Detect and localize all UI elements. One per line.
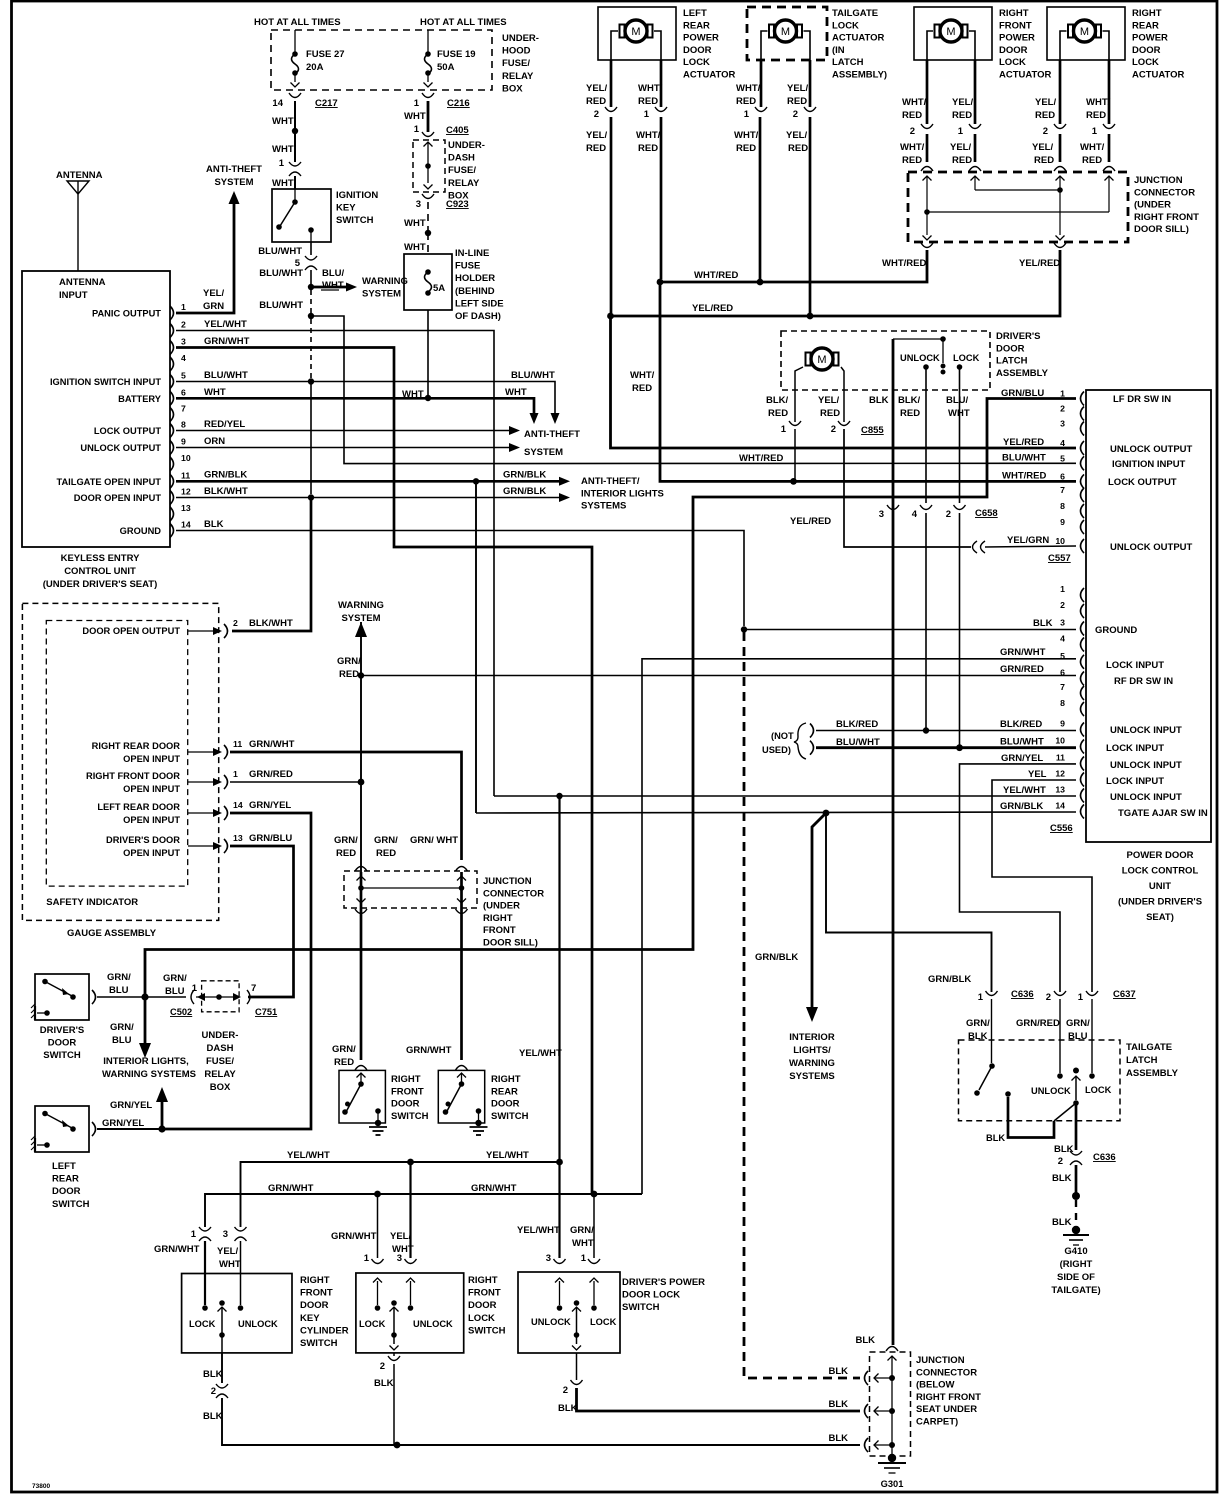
svg-text:13: 13 — [233, 833, 243, 843]
svg-text:6: 6 — [1060, 471, 1065, 481]
junction connector middle arcs — [355, 867, 367, 872]
svg-text:YEL/WHT: YEL/WHT — [1003, 785, 1046, 796]
gauge assembly outer box — [22, 603, 218, 920]
wires right rear power door lock actuator — [1059, 60, 1062, 124]
svg-text:1: 1 — [192, 983, 198, 994]
svg-text:SYSTEM: SYSTEM — [362, 289, 401, 300]
svg-text:YEL/RED: YEL/RED — [1003, 437, 1044, 448]
wire GRN/WHT C556 pin5 lock input — [642, 659, 1076, 1194]
wire WHT C217 to ignition key switch — [294, 101, 296, 128]
svg-text:8: 8 — [181, 420, 186, 430]
wire GRN/RED C556 pin6 RF door switch input — [361, 675, 1076, 677]
tailgate unlock wire — [1059, 999, 1061, 1073]
svg-text:GRN/WHT: GRN/WHT — [406, 1045, 452, 1056]
right rear door switch — [438, 1070, 484, 1123]
svg-text:WHT/: WHT/ — [638, 83, 663, 94]
svg-text:YEL/: YEL/ — [217, 1246, 238, 1257]
svg-text:UNLOCK INPUT: UNLOCK INPUT — [1110, 725, 1182, 736]
svg-text:CONNECTOR: CONNECTOR — [1134, 187, 1195, 198]
svg-text:YEL/RED: YEL/RED — [692, 303, 733, 314]
wire GRN/BLU C751 to gauge pin13 — [250, 996, 294, 998]
connectors right front power door lock actuator — [921, 124, 933, 129]
svg-text:3: 3 — [1060, 419, 1065, 429]
svg-text:WHT/RED: WHT/RED — [694, 270, 738, 281]
svg-text:M: M — [946, 26, 955, 38]
svg-text:SWITCH: SWITCH — [52, 1199, 90, 1210]
svg-text:RIGHT: RIGHT — [468, 1275, 498, 1286]
arrow to warning system (BLU/WHT) — [311, 286, 346, 289]
svg-text:BLK: BLK — [828, 1366, 848, 1377]
svg-text:2: 2 — [946, 509, 951, 520]
svg-text:RED: RED — [952, 110, 972, 121]
fuse 27 20A — [294, 30, 296, 52]
svg-text:SYSTEM: SYSTEM — [214, 177, 253, 188]
motor driver's door latch — [811, 348, 833, 370]
svg-text:WHT/: WHT/ — [1086, 97, 1111, 108]
svg-text:50A: 50A — [437, 62, 455, 73]
svg-text:2: 2 — [1060, 600, 1065, 610]
svg-text:BLU/WHT: BLU/WHT — [1000, 737, 1044, 748]
svg-text:YEL/: YEL/ — [203, 288, 224, 299]
svg-text:REAR: REAR — [491, 1086, 518, 1097]
svg-text:ACTUATOR: ACTUATOR — [832, 33, 885, 44]
svg-text:UNDER-: UNDER- — [502, 33, 539, 44]
svg-text:RED: RED — [586, 143, 606, 154]
svg-text:DOOR SILL): DOOR SILL) — [483, 938, 538, 949]
svg-text:RF DR SW IN: RF DR SW IN — [1114, 676, 1173, 687]
wire GRN/RED gauge pin1 to junction connector — [230, 781, 358, 783]
svg-text:RED/YEL: RED/YEL — [204, 419, 245, 430]
svg-text:3: 3 — [879, 509, 884, 520]
junction dot BLK/WHT x311 — [308, 494, 314, 500]
svg-text:BLU/WHT: BLU/WHT — [258, 246, 302, 257]
svg-text:DRIVER'S POWER: DRIVER'S POWER — [622, 1277, 705, 1288]
svg-text:GRN/: GRN/ — [337, 656, 361, 667]
svg-text:YEL/: YEL/ — [390, 1231, 411, 1242]
svg-text:UNIT: UNIT — [1149, 881, 1171, 892]
svg-text:LOCK OUTPUT: LOCK OUTPUT — [1108, 477, 1177, 488]
svg-text:7: 7 — [1060, 682, 1065, 692]
wire YEL/RED right front actuator to junction connector — [974, 134, 977, 162]
svg-text:GRN/: GRN/ — [570, 1225, 594, 1236]
svg-text:WHT: WHT — [404, 111, 426, 122]
junction dot BLU/WHT jog — [308, 313, 314, 319]
svg-text:IGNITION INPUT: IGNITION INPUT — [1112, 459, 1186, 470]
svg-text:WHT: WHT — [204, 387, 226, 398]
svg-text:BLK: BLK — [869, 395, 889, 406]
svg-text:3: 3 — [1060, 618, 1065, 628]
svg-text:13: 13 — [1055, 785, 1065, 795]
svg-text:LOCK: LOCK — [999, 57, 1026, 68]
svg-text:73800: 73800 — [32, 1483, 50, 1490]
svg-text:YEL/RED: YEL/RED — [1019, 258, 1060, 269]
junction internal vertical — [888, 1356, 897, 1361]
svg-text:BOX: BOX — [502, 83, 523, 94]
connector C636 (tailgate BLK) — [1070, 1151, 1082, 1155]
wire YEL/RED tailgate actuator to bus — [809, 117, 812, 313]
svg-text:GRN/YEL: GRN/YEL — [110, 1100, 152, 1111]
svg-text:YEL: YEL — [1028, 769, 1047, 780]
svg-text:14: 14 — [272, 98, 283, 109]
wire BLU/WHT to lock input C556 pin10 — [959, 513, 961, 748]
svg-text:1: 1 — [581, 1253, 587, 1264]
svg-text:OPEN INPUT: OPEN INPUT — [123, 784, 180, 794]
svg-text:M: M — [1080, 26, 1089, 38]
svg-text:1: 1 — [414, 124, 420, 135]
svg-text:POWER: POWER — [683, 33, 719, 44]
svg-text:REAR: REAR — [52, 1174, 79, 1185]
svg-text:5: 5 — [181, 371, 186, 381]
svg-text:HOT AT ALL TIMES: HOT AT ALL TIMES — [420, 17, 507, 28]
svg-text:SWITCH: SWITCH — [391, 1111, 429, 1122]
svg-text:YEL/: YEL/ — [1035, 97, 1056, 108]
svg-text:5: 5 — [1060, 453, 1065, 463]
svg-text:TAILGATE OPEN INPUT: TAILGATE OPEN INPUT — [56, 477, 161, 487]
wire BLK right front door lock switch — [393, 1353, 395, 1356]
svg-text:GRN/BLU: GRN/BLU — [249, 833, 292, 844]
svg-text:10: 10 — [181, 453, 191, 463]
svg-text:GRN: GRN — [203, 301, 224, 312]
svg-text:12: 12 — [181, 487, 191, 497]
wire BLK latch to junction connector G301 — [892, 339, 895, 1345]
svg-text:POWER: POWER — [1132, 33, 1168, 44]
svg-text:YEL/GRN: YEL/GRN — [1007, 535, 1049, 546]
svg-text:RED: RED — [638, 143, 658, 154]
svg-text:C636: C636 — [1011, 989, 1034, 1000]
svg-text:1: 1 — [1078, 992, 1084, 1003]
svg-text:LOCK: LOCK — [1085, 1085, 1112, 1095]
ground G410 — [1072, 1226, 1080, 1234]
svg-text:YEL/: YEL/ — [786, 130, 807, 141]
svg-text:LOCK INPUT: LOCK INPUT — [1106, 660, 1164, 671]
svg-text:RIGHT: RIGHT — [300, 1275, 330, 1286]
svg-text:1: 1 — [744, 109, 750, 120]
junction dot BLK x397 — [394, 1442, 401, 1449]
svg-text:LOCK: LOCK — [189, 1319, 216, 1329]
wire BLU/WHT not-used stub to pin10 — [816, 746, 1076, 749]
svg-text:2: 2 — [233, 618, 238, 628]
svg-text:IGNITION SWITCH INPUT: IGNITION SWITCH INPUT — [50, 377, 161, 387]
svg-text:RED: RED — [339, 669, 359, 680]
svg-text:DRIVER'S: DRIVER'S — [996, 331, 1041, 342]
junction jumper y212 — [927, 211, 1109, 213]
svg-text:RIGHT FRONT DOOR: RIGHT FRONT DOOR — [86, 771, 180, 781]
svg-text:YEL/WHT: YEL/WHT — [486, 1150, 529, 1161]
svg-text:WHT/: WHT/ — [734, 130, 759, 141]
svg-text:POWER: POWER — [999, 33, 1035, 44]
connector C217 pin 14 — [289, 93, 301, 98]
svg-text:1: 1 — [978, 992, 984, 1003]
svg-text:FUSE 27: FUSE 27 — [306, 49, 345, 60]
junction dot GRN/RED x361 — [358, 672, 364, 678]
connector C557 pin arcs — [1081, 392, 1085, 406]
svg-text:7: 7 — [1060, 485, 1065, 495]
left rear door switch pin arc — [92, 1122, 96, 1136]
wire BLU/WHT ignition switch to connector 5 — [310, 242, 312, 255]
right front door lock switch connectors — [372, 1259, 384, 1264]
svg-text:WARNING: WARNING — [789, 1058, 835, 1069]
svg-text:WARNING: WARNING — [362, 276, 408, 287]
svg-text:USED): USED) — [762, 745, 791, 755]
svg-text:ASSEMBLY: ASSEMBLY — [1126, 1068, 1179, 1079]
svg-text:14: 14 — [233, 800, 243, 810]
wire BLK key cylinder to connector 2 — [221, 1353, 223, 1383]
svg-text:RELAY: RELAY — [502, 71, 534, 82]
wire YEL/WHT down to switch bus — [558, 796, 560, 1162]
svg-text:YEL/: YEL/ — [1032, 142, 1053, 153]
svg-text:(UNDER DRIVER'S: (UNDER DRIVER'S — [1118, 897, 1202, 908]
svg-text:REAR: REAR — [1132, 20, 1159, 31]
connectors tailgate lock actuator — [755, 107, 767, 112]
wire GRN/WHT to driver's power door lock switch pin1 — [593, 1194, 595, 1258]
svg-text:CONNECTOR: CONNECTOR — [483, 888, 544, 899]
svg-text:BLK: BLK — [558, 1403, 578, 1414]
wire BLK key cylinder to ground bus — [222, 1398, 860, 1445]
svg-text:LOCK: LOCK — [468, 1313, 495, 1324]
svg-text:LATCH: LATCH — [1126, 1055, 1158, 1066]
svg-text:YEL/: YEL/ — [952, 97, 973, 108]
wire YEL/RED down x610 to unlock output — [611, 316, 1077, 448]
junction dot YEL/WHT at x559 — [556, 793, 562, 799]
wires right front power door lock actuator — [926, 60, 929, 124]
svg-text:20A: 20A — [306, 62, 324, 73]
wire GRN/BLK x826 to C636 pin1 — [826, 813, 992, 992]
svg-text:FUSE 19: FUSE 19 — [437, 49, 476, 60]
svg-text:RED: RED — [736, 96, 756, 107]
svg-text:1: 1 — [279, 158, 285, 169]
tailgate lock actuator — [747, 7, 827, 60]
svg-text:BLU/: BLU/ — [322, 268, 345, 279]
svg-text:1: 1 — [414, 98, 420, 109]
svg-text:YEL/WHT: YEL/WHT — [517, 1225, 560, 1236]
svg-text:BLK: BLK — [1033, 618, 1053, 629]
svg-text:UNLOCK INPUT: UNLOCK INPUT — [1110, 760, 1182, 771]
svg-text:13: 13 — [181, 503, 191, 513]
svg-text:INTERIOR LIGHTS,: INTERIOR LIGHTS, — [103, 1056, 189, 1067]
svg-text:OF DASH): OF DASH) — [455, 311, 501, 322]
wire BLK/WHT down to gauge door open output — [232, 498, 311, 632]
driver's door latch assembly box — [781, 331, 990, 390]
svg-text:LOCK: LOCK — [953, 353, 980, 363]
svg-text:ASSEMBLY): ASSEMBLY) — [832, 70, 887, 81]
svg-text:RELAY: RELAY — [204, 1069, 236, 1080]
svg-text:LOCK: LOCK — [359, 1319, 386, 1329]
svg-text:BLK/WHT: BLK/WHT — [249, 618, 293, 629]
svg-text:BLU/WHT: BLU/WHT — [259, 268, 303, 279]
wire BLU/WHT latch lock contact — [959, 367, 961, 503]
wire WHT C923 to in-line fuse holder — [427, 202, 429, 230]
latch motor wires to C855 — [795, 367, 803, 422]
svg-text:RED: RED — [902, 110, 922, 121]
svg-text:WHT: WHT — [572, 1238, 594, 1249]
svg-text:FUSE: FUSE — [455, 261, 480, 272]
wire BLK tailgate latch to G410 — [1075, 1103, 1078, 1150]
svg-text:YEL/WHT: YEL/WHT — [204, 319, 247, 330]
svg-text:LOCK: LOCK — [683, 57, 710, 68]
svg-text:WHT: WHT — [272, 116, 294, 127]
svg-text:14: 14 — [181, 520, 191, 530]
svg-text:2: 2 — [380, 1361, 385, 1372]
svg-text:RED: RED — [336, 848, 356, 859]
wire GRN/YEL gauge pin14 to left rear door switch — [165, 813, 311, 1129]
svg-text:GRN/BLK: GRN/BLK — [755, 952, 798, 963]
svg-text:WHT/: WHT/ — [902, 97, 927, 108]
svg-text:WHT: WHT — [948, 408, 970, 419]
svg-text:DOOR: DOOR — [999, 45, 1028, 56]
connector 5 (BLU/WHT) — [305, 256, 317, 260]
svg-text:WHT/RED: WHT/RED — [882, 258, 926, 269]
svg-text:UNDER-: UNDER- — [202, 1030, 239, 1041]
svg-text:3: 3 — [416, 199, 421, 210]
junction dot WHT/RED latch motor — [790, 478, 797, 485]
svg-text:BATTERY: BATTERY — [118, 394, 162, 404]
svg-text:GRN/: GRN/ — [332, 1044, 356, 1055]
svg-text:LEFT: LEFT — [52, 1161, 76, 1172]
svg-text:TAILGATE: TAILGATE — [832, 8, 878, 19]
svg-text:ANTENNA: ANTENNA — [56, 170, 103, 181]
svg-text:BLU: BLU — [165, 986, 185, 997]
svg-text:GROUND: GROUND — [120, 526, 162, 536]
svg-text:C923: C923 — [446, 199, 469, 210]
svg-text:INTERIOR LIGHTS: INTERIOR LIGHTS — [581, 488, 664, 499]
svg-text:BLU/: BLU/ — [946, 395, 969, 406]
junction dot GRN/RED gauge — [358, 779, 365, 786]
svg-text:LOCK CONTROL: LOCK CONTROL — [1122, 866, 1199, 877]
wire YEL/WHT to right front door lock switch pin3 — [409, 1162, 411, 1258]
junction dot warning-system branch — [308, 284, 314, 290]
svg-text:7: 7 — [181, 404, 186, 414]
keyless box pin arcs 1-14 — [170, 306, 174, 320]
svg-text:SEAT): SEAT) — [1146, 912, 1174, 923]
right front door lock switch contacts — [377, 1281, 379, 1305]
svg-text:UNLOCK OUTPUT: UNLOCK OUTPUT — [1110, 444, 1193, 455]
wire GRN/BLK to interior lights arrow — [812, 813, 826, 1012]
svg-text:10: 10 — [1055, 736, 1065, 746]
svg-text:4: 4 — [1060, 634, 1065, 644]
svg-text:SEAT UNDER: SEAT UNDER — [916, 1404, 977, 1415]
junction dot BLU/WHT — [956, 744, 963, 751]
svg-text:GRN/WHT: GRN/WHT — [331, 1231, 377, 1242]
svg-text:C556: C556 — [1050, 823, 1073, 834]
svg-text:DOOR: DOOR — [996, 343, 1025, 354]
connector C556 pin arcs — [1081, 588, 1085, 602]
svg-text:GRN/RED: GRN/RED — [1016, 1018, 1060, 1029]
svg-text:9: 9 — [1060, 719, 1065, 729]
svg-text:SYSTEMS: SYSTEMS — [581, 501, 626, 512]
svg-text:WHT: WHT — [392, 1244, 414, 1255]
svg-text:LEFT SIDE: LEFT SIDE — [455, 298, 504, 309]
junction dot BLK tailgate — [1072, 1192, 1080, 1200]
key cylinder connectors 1 and 3 — [199, 1227, 211, 1231]
svg-text:BLK: BLK — [855, 1335, 875, 1346]
tailgate latch pole — [1073, 1068, 1079, 1074]
svg-text:(BEHIND: (BEHIND — [455, 286, 495, 297]
right front power door lock actuator — [914, 7, 992, 60]
svg-text:TGATE AJAR SW IN: TGATE AJAR SW IN — [1118, 808, 1208, 819]
svg-text:RED: RED — [952, 155, 972, 166]
svg-text:FRONT: FRONT — [300, 1288, 333, 1299]
svg-text:YEL/: YEL/ — [818, 395, 839, 406]
svg-text:BLU: BLU — [1068, 1031, 1088, 1042]
wire GRN/BLK down x476 to tailgate ajar line — [475, 481, 477, 813]
svg-text:BLK/: BLK/ — [898, 395, 921, 406]
ground G301 — [888, 1454, 896, 1462]
svg-text:1: 1 — [958, 126, 964, 137]
svg-text:C636: C636 — [1093, 1152, 1116, 1163]
wire YEL/RED latch motor to unlock output C557 pin10 — [844, 429, 971, 547]
svg-text:YEL/WHT: YEL/WHT — [519, 1048, 562, 1059]
svg-text:HOT AT ALL TIMES: HOT AT ALL TIMES — [254, 17, 341, 28]
svg-text:SWITCH: SWITCH — [491, 1111, 529, 1122]
wire BLU/WHT jog to ignition input C557 pin5 — [311, 316, 1076, 464]
svg-text:GRN/RED: GRN/RED — [1000, 664, 1044, 675]
svg-text:JUNCTION: JUNCTION — [916, 1355, 965, 1366]
wire WHT/RED right rear actuator to junction connector — [1108, 134, 1111, 162]
right front door key cylinder switch — [182, 1274, 292, 1353]
svg-text:WHT: WHT — [505, 387, 527, 398]
svg-text:10: 10 — [1055, 536, 1065, 546]
junction dot BLU/WHT pin5 at x311 — [308, 378, 314, 384]
svg-text:RIGHT: RIGHT — [391, 1074, 421, 1085]
svg-text:OPEN INPUT: OPEN INPUT — [123, 815, 180, 825]
svg-text:RED: RED — [900, 408, 920, 419]
svg-text:FUSE/: FUSE/ — [502, 58, 530, 69]
wire WHT C216 to C405 — [427, 101, 430, 132]
svg-text:RED: RED — [1086, 110, 1106, 121]
right front door lock switch — [356, 1273, 464, 1353]
svg-text:UNDER-: UNDER- — [448, 140, 485, 151]
svg-text:7: 7 — [251, 983, 256, 994]
junction dot GRN/WHT x394 — [393, 1193, 395, 1195]
svg-text:1: 1 — [233, 769, 238, 779]
svg-text:LOCK: LOCK — [832, 20, 859, 31]
svg-text:SWITCH: SWITCH — [43, 1050, 81, 1061]
svg-text:(UNDER: (UNDER — [1134, 200, 1171, 211]
svg-text:GRN/WHT: GRN/WHT — [249, 739, 295, 750]
svg-text:WHT: WHT — [219, 1259, 241, 1270]
svg-text:GRN/: GRN/ — [334, 835, 358, 846]
svg-text:GRN/BLK: GRN/BLK — [928, 974, 971, 985]
svg-text:C557: C557 — [1048, 553, 1071, 564]
junction dot WHT — [292, 128, 298, 134]
junction jumper y190 — [975, 189, 1060, 191]
safety indicator box — [46, 621, 187, 887]
svg-text:9: 9 — [1060, 517, 1065, 527]
connectors left rear power door lock actuator — [605, 107, 617, 112]
svg-text:DOOR: DOOR — [391, 1099, 420, 1110]
svg-text:1: 1 — [781, 424, 787, 435]
svg-text:OPEN INPUT: OPEN INPUT — [123, 754, 180, 764]
wire GRN/BLU dot to interior lights arrow — [144, 997, 147, 1047]
svg-text:KEY: KEY — [336, 203, 356, 214]
svg-text:C216: C216 — [447, 98, 470, 109]
svg-text:6: 6 — [181, 387, 186, 397]
svg-text:2: 2 — [793, 109, 798, 120]
svg-text:PANIC OUTPUT: PANIC OUTPUT — [92, 309, 161, 319]
svg-text:(NOT: (NOT — [771, 731, 794, 741]
svg-text:GRN/YEL: GRN/YEL — [249, 800, 291, 811]
svg-text:2: 2 — [181, 320, 186, 330]
svg-text:SWITCH: SWITCH — [622, 1302, 660, 1313]
svg-text:YEL/: YEL/ — [586, 83, 607, 94]
svg-text:RED: RED — [768, 408, 788, 419]
svg-text:1: 1 — [644, 109, 650, 120]
svg-text:FUSE/: FUSE/ — [448, 165, 476, 176]
wire GRN/BLU pin1 to driver's door switch — [145, 399, 1076, 995]
svg-text:GRN/YEL: GRN/YEL — [102, 1118, 144, 1129]
svg-text:WHT: WHT — [322, 280, 344, 291]
svg-text:GROUND: GROUND — [1095, 625, 1137, 636]
